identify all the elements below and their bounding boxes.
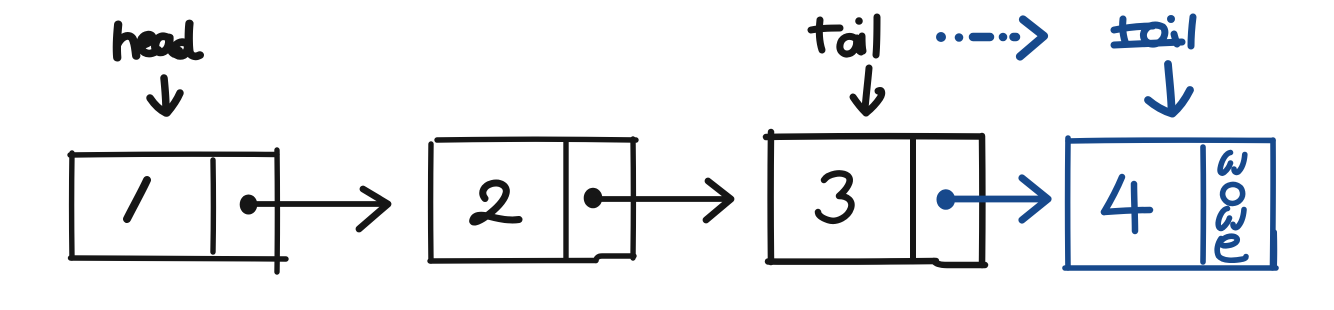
node2 pointer dot [584,188,603,209]
arrow head-to-node1 (down arrow) [150,78,180,113]
node4 value "4" (blue) [1104,177,1150,231]
dot of "i" in blue tail [1167,15,1175,23]
node3 value "3" [818,173,851,220]
node2 box [430,139,636,261]
node3 box [766,132,985,265]
node4 divider [1200,147,1206,262]
node4 box (blue) [1065,138,1276,268]
node2 value "2" [473,183,519,222]
node3 pointer dot (blue) [937,189,956,210]
node3 divider [910,139,916,258]
node1 value "1" [127,180,147,219]
dot of "i" in tail [855,17,863,25]
node2 divider [563,140,568,260]
label "head" [117,23,200,57]
node1 divider [210,160,216,252]
node4 next value "NONE" vertical (blue) [1217,153,1246,261]
arrow node2-to-node3 [598,181,731,220]
arrow tail-to-node3 (down arrow) [853,68,882,113]
dashed arrow chevron (blue) [1020,20,1044,57]
arrow node1-to-node2 [252,189,388,229]
node1 pointer dot [240,195,258,215]
node1 box [70,150,286,272]
arrow node3-to-node4 (blue) [949,178,1048,220]
arrow blue-tail-to-node4 (down arrow) [1148,64,1190,114]
label "tail" (black) [811,17,877,55]
label "tail" (blue) [1114,17,1193,46]
dashed arrow tail-to-tail (blue) [936,32,1007,42]
